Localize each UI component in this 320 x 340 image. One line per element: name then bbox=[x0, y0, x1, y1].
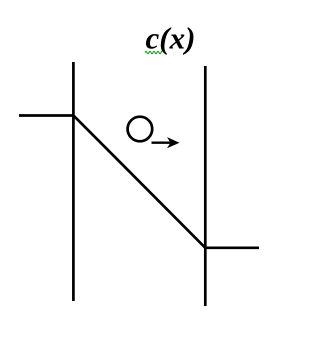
svg-text:c(x): c(x) bbox=[146, 21, 196, 56]
arrow shaft bbox=[152, 141, 172, 143]
wire diagonal bbox=[73, 115, 205, 247]
arrow head bbox=[167, 137, 180, 148]
wire right horizontal stub bbox=[204, 246, 259, 249]
wire left horizontal stub bbox=[19, 114, 75, 117]
node circle bbox=[128, 117, 153, 142]
squiggle spellcheck under c bbox=[145, 51, 163, 54]
wire right vertical bbox=[204, 66, 207, 306]
wire left vertical bbox=[72, 62, 75, 301]
